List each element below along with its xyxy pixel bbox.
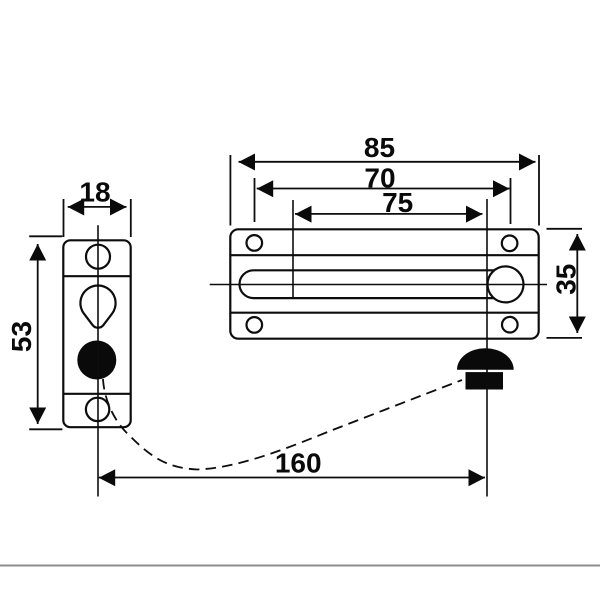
left plate bottom hole [86, 398, 109, 421]
dim 85 right extension [538, 155, 540, 226]
dim 35 line [576, 234, 578, 333]
dim 53 line [37, 244, 39, 424]
arrowhead 70 right [493, 180, 510, 197]
right plate lower fold line [230, 312, 538, 314]
dim 70 left extension [254, 178, 256, 222]
right plate outline [230, 229, 538, 338]
dim 75 line [295, 213, 483, 215]
arrowhead 53 bottom [29, 408, 46, 425]
arrowhead 85 right [519, 154, 536, 171]
dim 70 right extension [510, 178, 512, 224]
right plate screw hole top-left [247, 235, 263, 251]
arrowhead 35 bottom [569, 317, 586, 334]
right plate keyhole circle [488, 266, 524, 302]
svg-text:85: 85 [364, 132, 395, 163]
left plate black knob circle [77, 341, 116, 380]
dim 35 bottom extension [547, 337, 583, 339]
left plate center line [97, 225, 99, 496]
svg-text:75: 75 [382, 187, 413, 218]
right plate upper fold line [230, 254, 538, 256]
left plate lower fold line [63, 393, 130, 395]
left plate top screw hole [86, 245, 110, 269]
right plate slot [240, 270, 495, 298]
slot-left extension vertical line [292, 200, 294, 298]
left plate keyhole teardrop [80, 285, 115, 327]
dim 85 line [239, 161, 536, 163]
svg-text:35: 35 [551, 264, 582, 295]
arrowhead 75 left [295, 206, 312, 223]
svg-text:160: 160 [275, 448, 322, 479]
dim 18 left extension [63, 199, 65, 237]
chain dashed curve [103, 379, 462, 470]
right plate horizontal center line [210, 284, 547, 286]
dim 70 line [257, 188, 510, 190]
arrowhead 53 top [29, 244, 46, 261]
dim 53 bottom extension [29, 428, 62, 430]
arrowhead 75 right [466, 206, 483, 223]
dim 35 top extension [547, 228, 583, 230]
arrowhead 85 left [239, 154, 256, 171]
knob dome [457, 348, 514, 369]
knob stem [466, 372, 504, 389]
arrowhead 35 top [569, 234, 586, 251]
dim 160 line [99, 477, 485, 479]
dim 18 line [68, 206, 127, 208]
left plate upper fold line [63, 275, 130, 277]
dim 18 right extension [130, 199, 132, 237]
arrowhead 160 right [469, 469, 486, 486]
arrowhead 160 left [99, 469, 116, 486]
svg-text:18: 18 [79, 177, 110, 208]
right plate screw hole bottom-left [247, 317, 263, 333]
arrowhead 18 right [110, 199, 127, 216]
knob axis vertical line [486, 199, 488, 497]
arrowhead 18 left [68, 199, 85, 216]
bottom gray separator rule [0, 565, 600, 567]
right plate screw hole bottom-right [502, 317, 518, 333]
dim 53 top extension [29, 235, 62, 237]
right plate screw hole top-right [502, 236, 518, 252]
arrowhead 70 left [257, 180, 274, 197]
svg-text:53: 53 [6, 321, 37, 352]
left plate outline [63, 240, 130, 427]
dim 85 left extension [229, 155, 231, 226]
